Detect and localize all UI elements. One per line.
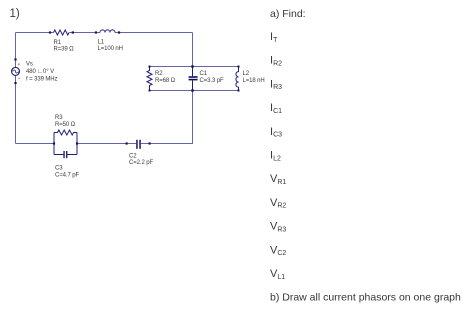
wire top segment right of L1 <box>115 32 193 34</box>
svg-text:IC3: IC3 <box>270 126 282 139</box>
svg-text:C=2.2 pF: C=2.2 pF <box>129 160 153 166</box>
svg-text:R1: R1 <box>54 40 62 46</box>
inductor L2 <box>236 67 239 91</box>
polarity minus mark <box>18 77 20 79</box>
capacitor C1 lead bottom <box>192 80 194 90</box>
resistor R1 <box>54 30 70 35</box>
svg-text:IR2: IR2 <box>270 55 282 68</box>
svg-text:a) Find:: a) Find: <box>270 8 306 20</box>
node dot C1 bottom junction <box>191 89 193 91</box>
svg-text:VR3: VR3 <box>270 221 286 234</box>
resistor R3 <box>54 130 77 135</box>
svg-text:VC2: VC2 <box>270 244 286 257</box>
R3/C3 block right edge <box>76 133 78 155</box>
svg-text:C2: C2 <box>129 154 137 160</box>
svg-text:C=4.7 pF: C=4.7 pF <box>55 173 79 179</box>
node dot C1 top junction <box>191 65 193 67</box>
capacitor C3 right plate <box>66 151 67 158</box>
capacitor C1 lead top <box>192 67 194 77</box>
svg-text:L1: L1 <box>98 40 105 46</box>
capacitor C3 left lead <box>54 154 63 156</box>
svg-text:C1: C1 <box>200 71 208 77</box>
svg-text:IT: IT <box>270 31 278 44</box>
wire right vertical lower (tank down to bottom wire) <box>150 91 193 144</box>
polarity plus mark <box>18 63 20 65</box>
pin dot R1 right <box>72 31 74 33</box>
svg-text:f = 339 MHz: f = 339 MHz <box>26 77 58 83</box>
svg-text:480 ∟0° V: 480 ∟0° V <box>26 69 54 75</box>
svg-text:IL2: IL2 <box>270 150 281 163</box>
svg-text:L=18 nH: L=18 nH <box>243 78 265 84</box>
inductor L1 <box>100 30 115 33</box>
capacitor C2 left plate <box>136 140 138 149</box>
wire bottom segment right plate of C2 <box>141 143 150 145</box>
svg-text:VL1: VL1 <box>270 268 285 281</box>
svg-text:IC1: IC1 <box>270 102 282 115</box>
svg-text:R=39 Ω: R=39 Ω <box>54 47 75 53</box>
svg-text:1): 1) <box>10 8 20 20</box>
pin dot Vs bottom <box>14 82 16 84</box>
pin dot L1 left <box>95 31 97 33</box>
svg-text:L=100 nH: L=100 nH <box>98 46 123 52</box>
pin dot Vs top <box>14 58 16 60</box>
pin dot C2 right <box>149 142 151 144</box>
svg-text:b) Draw all current phasors on: b) Draw all current phasors on one graph <box>270 292 461 304</box>
pin dot R1 left <box>49 31 51 33</box>
pin dot C2 left <box>126 142 128 144</box>
svg-text:C3: C3 <box>55 166 63 172</box>
wire top segment left of R1 <box>16 32 54 34</box>
node dot R2 top <box>149 66 151 68</box>
wire left vertical (Vs branch) <box>15 33 17 144</box>
svg-text:C=3.3 pF: C=3.3 pF <box>200 78 224 84</box>
capacitor C3 left plate <box>63 151 64 158</box>
node dot L2 bottom <box>238 90 240 92</box>
R3/C3 block left edge <box>53 133 55 155</box>
voltage source Vs sine wave <box>13 70 19 73</box>
svg-text:R=50 Ω: R=50 Ω <box>55 122 76 128</box>
wire bottom segment between R3 block and C2 <box>77 143 136 145</box>
node dot L2 top <box>238 66 240 68</box>
svg-text:Vs: Vs <box>26 62 33 68</box>
voltage source Vs circle <box>12 67 20 75</box>
pin dot L1 right <box>118 31 120 33</box>
node dot R2 bottom <box>149 90 151 92</box>
capacitor C2 right plate <box>139 140 141 149</box>
pin dot R3 block left <box>53 142 55 144</box>
svg-text:R2: R2 <box>155 71 163 77</box>
svg-text:VR1: VR1 <box>270 173 286 186</box>
pin dot R3 block right <box>76 142 78 144</box>
svg-text:VR2: VR2 <box>270 197 286 210</box>
wire tank top rail <box>150 66 239 68</box>
wire top segment between R1 and L1 <box>69 32 100 34</box>
capacitor C3 right lead <box>67 154 77 156</box>
wire bottom segment left of R3 block <box>16 143 55 145</box>
svg-text:R3: R3 <box>55 115 63 121</box>
capacitor C1 bottom plate <box>189 79 198 81</box>
capacitor C1 top plate <box>189 76 198 78</box>
resistor R2 <box>147 67 152 91</box>
svg-text:R=68 Ω: R=68 Ω <box>155 78 176 84</box>
wire right vertical upper (top wire down to tank) <box>192 33 194 67</box>
svg-text:L2: L2 <box>243 71 250 77</box>
wire tank bottom rail <box>150 90 239 92</box>
svg-text:IR3: IR3 <box>270 78 282 91</box>
